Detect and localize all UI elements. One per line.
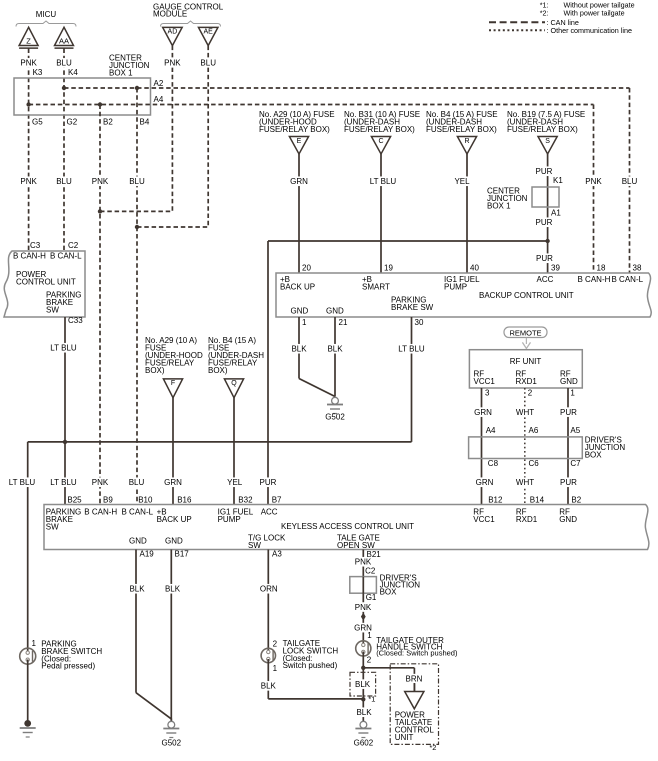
svg-text:2: 2: [273, 639, 278, 648]
svg-text:BRAKE SW: BRAKE SW: [391, 303, 434, 312]
svg-text:PNK: PNK: [355, 603, 372, 612]
svg-text:PUR: PUR: [260, 478, 277, 487]
svg-text:LT BLU: LT BLU: [50, 344, 77, 353]
svg-text:B14: B14: [530, 495, 545, 504]
svg-text:BRN: BRN: [406, 674, 423, 683]
svg-text:A4: A4: [486, 426, 496, 435]
svg-text:FUSE/RELAY BOX): FUSE/RELAY BOX): [507, 125, 578, 134]
svg-text:G602: G602: [354, 739, 374, 748]
svg-text:BLK: BLK: [327, 345, 343, 354]
svg-text:BLK: BLK: [261, 682, 277, 691]
svg-text:20: 20: [302, 264, 311, 273]
svg-text:BLK: BLK: [129, 585, 145, 594]
svg-text:FUSE/RELAY BOX): FUSE/RELAY BOX): [259, 125, 330, 134]
svg-text:BLU: BLU: [622, 177, 638, 186]
svg-text:A19: A19: [140, 550, 155, 559]
svg-text:ORN: ORN: [260, 585, 278, 594]
svg-text:19: 19: [384, 264, 393, 273]
svg-text:UNIT: UNIT: [395, 733, 414, 742]
svg-text:C3: C3: [30, 241, 41, 250]
svg-text:E: E: [297, 138, 302, 145]
svg-text:B CAN-L: B CAN-L: [122, 508, 154, 517]
svg-text:LT BLU: LT BLU: [9, 478, 36, 487]
svg-text:BLK: BLK: [165, 585, 181, 594]
svg-text:B25: B25: [67, 495, 82, 504]
svg-text:G502: G502: [162, 739, 182, 748]
svg-text:C8: C8: [488, 459, 499, 468]
svg-text:REMOTE: REMOTE: [509, 328, 541, 337]
svg-text:G5: G5: [32, 118, 43, 127]
svg-text:PUR: PUR: [536, 167, 553, 176]
svg-text:K1: K1: [553, 176, 563, 185]
svg-text:GRN: GRN: [474, 408, 492, 417]
svg-text:S: S: [545, 138, 550, 145]
svg-text:YEL: YEL: [227, 478, 243, 487]
svg-text:2: 2: [367, 656, 372, 665]
svg-text:R: R: [464, 138, 469, 145]
svg-text:PNK: PNK: [585, 177, 602, 186]
svg-text:18: 18: [597, 264, 606, 273]
svg-text:LT BLU: LT BLU: [398, 345, 425, 354]
svg-text:A5: A5: [570, 426, 580, 435]
svg-text:BOX: BOX: [380, 588, 398, 597]
svg-text:PUR: PUR: [536, 218, 553, 227]
svg-text:C6: C6: [529, 459, 540, 468]
svg-text:(Closed: Switch pushed): (Closed: Switch pushed): [376, 649, 458, 658]
svg-text:FUSE/RELAY BOX): FUSE/RELAY BOX): [426, 125, 497, 134]
svg-text:BLU: BLU: [200, 59, 216, 68]
svg-text:F: F: [171, 380, 175, 387]
svg-text:G502: G502: [325, 413, 345, 422]
svg-text:AD: AD: [168, 29, 178, 36]
svg-text:A4: A4: [154, 95, 164, 104]
svg-text:K3: K3: [33, 68, 43, 77]
svg-text:ACC: ACC: [537, 275, 554, 284]
svg-text:38: 38: [633, 264, 642, 273]
svg-text:B9: B9: [103, 495, 113, 504]
svg-text:PUMP: PUMP: [218, 515, 241, 524]
svg-text:1: 1: [273, 664, 278, 673]
svg-text:PUR: PUR: [536, 254, 553, 263]
svg-text:GRN: GRN: [476, 478, 494, 487]
svg-text:PNK: PNK: [20, 177, 37, 186]
svg-text:PUMP: PUMP: [444, 283, 467, 292]
svg-text:VCC1: VCC1: [474, 377, 496, 386]
svg-text:1: 1: [367, 631, 372, 640]
svg-text:MICU: MICU: [36, 10, 57, 19]
svg-text:A1: A1: [551, 209, 561, 218]
svg-text:C2: C2: [68, 241, 79, 250]
svg-text:40: 40: [470, 264, 479, 273]
svg-text:B CAN-L: B CAN-L: [612, 275, 644, 284]
svg-text:B CAN-H: B CAN-H: [578, 275, 611, 284]
svg-text:WHT: WHT: [516, 408, 534, 417]
svg-text:BOX: BOX: [585, 451, 603, 460]
svg-text:PUR: PUR: [560, 408, 577, 417]
svg-text:SW: SW: [46, 306, 59, 315]
svg-text:BLU: BLU: [129, 177, 145, 186]
svg-text:B CAN-L: B CAN-L: [50, 252, 82, 261]
svg-text:With power tailgate: With power tailgate: [564, 8, 625, 17]
svg-text:LT BLU: LT BLU: [50, 478, 77, 487]
svg-text:C33: C33: [68, 316, 83, 325]
svg-text:G1: G1: [366, 593, 377, 602]
svg-text:B7: B7: [272, 495, 282, 504]
svg-text:2: 2: [528, 388, 533, 397]
svg-text:BOX): BOX): [208, 366, 228, 375]
svg-text:RF UNIT: RF UNIT: [510, 357, 542, 366]
svg-text:PNK: PNK: [164, 59, 181, 68]
svg-text:KEYLESS ACCESS CONTROL UNIT: KEYLESS ACCESS CONTROL UNIT: [281, 522, 414, 531]
svg-text:*2: *2: [429, 743, 436, 752]
svg-text:WHT: WHT: [516, 478, 534, 487]
svg-text:MODULE: MODULE: [153, 10, 187, 19]
svg-text:SW: SW: [46, 523, 59, 532]
svg-text:A2: A2: [154, 79, 164, 88]
svg-text:BLK: BLK: [355, 680, 371, 689]
svg-text:BLU: BLU: [56, 177, 72, 186]
svg-text:BLK: BLK: [356, 708, 372, 717]
svg-text:: Other communication line: : Other communication line: [547, 26, 633, 35]
svg-text:K4: K4: [68, 68, 78, 77]
svg-text:21: 21: [339, 318, 348, 327]
svg-text:BACKUP CONTROL UNIT: BACKUP CONTROL UNIT: [479, 291, 574, 300]
svg-text:1: 1: [32, 639, 37, 648]
svg-text:SW: SW: [248, 541, 261, 550]
svg-text:30: 30: [415, 318, 424, 327]
svg-text:B4: B4: [140, 118, 150, 127]
svg-text:VCC1: VCC1: [473, 515, 495, 524]
svg-text:3: 3: [485, 388, 490, 397]
svg-text:B32: B32: [238, 495, 253, 504]
svg-text:OPEN SW: OPEN SW: [337, 541, 375, 550]
svg-text:RXD1: RXD1: [516, 515, 538, 524]
svg-text:BACK UP: BACK UP: [280, 283, 315, 292]
svg-text:YEL: YEL: [454, 177, 470, 186]
svg-text:ACC: ACC: [261, 508, 278, 517]
svg-text:B2: B2: [103, 118, 113, 127]
svg-text:RXD1: RXD1: [516, 377, 538, 386]
svg-text:B16: B16: [177, 495, 192, 504]
svg-text:CONTROL UNIT: CONTROL UNIT: [16, 278, 76, 287]
svg-text:C7: C7: [570, 459, 581, 468]
svg-text:BLU: BLU: [129, 478, 145, 487]
svg-text:AA: AA: [59, 37, 69, 46]
svg-text:B CAN-H: B CAN-H: [13, 252, 46, 261]
svg-text:BACK UP: BACK UP: [157, 515, 192, 524]
svg-text:*1: *1: [368, 695, 375, 704]
svg-text:AE: AE: [204, 29, 214, 36]
svg-text:SMART: SMART: [362, 283, 390, 292]
svg-text:Switch pushed): Switch pushed): [283, 661, 338, 670]
svg-text:PUR: PUR: [560, 478, 577, 487]
svg-text:BLU: BLU: [56, 59, 72, 68]
svg-text:C2: C2: [365, 567, 376, 576]
svg-text:B12: B12: [488, 495, 503, 504]
svg-text:GND: GND: [326, 307, 344, 316]
svg-text:Pedal pressed): Pedal pressed): [41, 662, 95, 671]
svg-text:GND: GND: [165, 537, 183, 546]
svg-text:GRN: GRN: [164, 478, 182, 487]
svg-text:Z: Z: [26, 37, 31, 46]
svg-text:1: 1: [570, 388, 575, 397]
svg-text:PNK: PNK: [355, 558, 372, 567]
svg-text:1: 1: [302, 318, 307, 327]
svg-text:B2: B2: [571, 495, 581, 504]
svg-text:BOX): BOX): [145, 366, 165, 375]
svg-text:A3: A3: [272, 550, 282, 559]
svg-text:GND: GND: [560, 377, 578, 386]
svg-text:PNK: PNK: [20, 59, 37, 68]
svg-text:B10: B10: [138, 495, 153, 504]
svg-text:PNK: PNK: [92, 177, 109, 186]
svg-text:GND: GND: [559, 515, 577, 524]
svg-text:39: 39: [551, 264, 560, 273]
svg-text:B CAN-H: B CAN-H: [84, 508, 117, 517]
svg-text:*2:: *2:: [540, 8, 549, 17]
svg-text:Q: Q: [231, 380, 237, 387]
svg-text:FUSE/RELAY BOX): FUSE/RELAY BOX): [344, 125, 415, 134]
svg-text:A6: A6: [529, 426, 539, 435]
svg-text:PNK: PNK: [92, 478, 109, 487]
svg-text:C: C: [378, 138, 383, 145]
svg-text:GND: GND: [291, 307, 309, 316]
svg-text:LT BLU: LT BLU: [370, 177, 397, 186]
svg-text:G2: G2: [67, 118, 78, 127]
svg-text:BOX 1: BOX 1: [109, 69, 133, 78]
svg-text:BOX 1: BOX 1: [487, 202, 511, 211]
svg-text:GND: GND: [129, 537, 147, 546]
svg-text:GRN: GRN: [290, 177, 308, 186]
svg-text:B17: B17: [175, 550, 190, 559]
svg-text:BLK: BLK: [291, 345, 307, 354]
